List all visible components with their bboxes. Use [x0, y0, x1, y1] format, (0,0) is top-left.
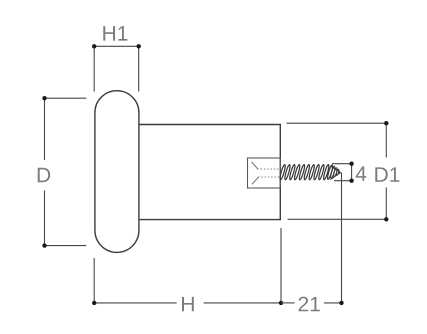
knob head (pill outline) [95, 91, 139, 253]
screw tip cone [330, 166, 340, 180]
screw shank hidden dotted line upper [257, 168, 280, 170]
screw thread coil [279, 164, 333, 180]
knob body (cylinder outline) [139, 125, 280, 220]
screw countersink diagonal upper [252, 162, 258, 169]
dimension H [92, 228, 283, 311]
dimension D [38, 96, 87, 248]
screw countersink diagonal lower [252, 177, 259, 184]
dimension H1 [92, 26, 141, 91]
screw head hole (hidden detail box) [248, 158, 281, 188]
dimension 4 (screw diameter) [332, 162, 366, 183]
screw shank hidden dotted line lower [258, 176, 280, 178]
dimension D1 [287, 121, 400, 222]
dimension 21 [281, 173, 344, 312]
